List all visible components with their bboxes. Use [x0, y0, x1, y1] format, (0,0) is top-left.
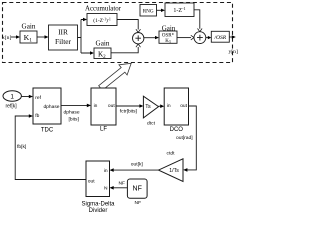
svg-text:fb[k]: fb[k] [17, 144, 27, 150]
svg-text:OSR*: OSR* [162, 34, 175, 39]
svg-text:out[rad]: out[rad] [176, 135, 193, 141]
accumulator (1-Z^-1)^-1 [87, 14, 117, 26]
wire K1 to IIR [37, 36, 46, 38]
wire dtct to DCO [159, 105, 162, 107]
sum node 2 [194, 32, 206, 44]
svg-text:y[n]: y[n] [229, 49, 238, 55]
svg-text:in: in [167, 103, 171, 109]
gain OSR*K3 [159, 31, 177, 43]
svg-text:out: out [88, 178, 95, 184]
constant NF [127, 179, 147, 198]
svg-text:Gain: Gain [96, 39, 110, 47]
IIR filter [49, 25, 78, 50]
dashed subsystem boundary [3, 3, 233, 63]
svg-text:Filter: Filter [55, 37, 72, 46]
wire K2 to sum1 [111, 47, 138, 53]
wire DCO to ctdt [187, 106, 197, 170]
svg-text:out: out [180, 103, 187, 109]
svg-text:x[n]: x[n] [2, 35, 11, 41]
svg-text:ref: ref [35, 95, 41, 101]
svg-text:dtct: dtct [147, 121, 156, 127]
svg-text:IIR: IIR [58, 28, 68, 37]
callout arrow from LF to subsystem [99, 63, 132, 90]
gain K1 [20, 31, 37, 43]
svg-text:in: in [94, 103, 98, 109]
wire divider out to TDC fb [15, 116, 86, 180]
svg-text:[bits]: [bits] [69, 116, 80, 122]
DCO block [164, 88, 188, 125]
gain K2 [94, 48, 111, 59]
wire NF to divider N [113, 187, 127, 189]
sigma-delta divider block [86, 161, 110, 197]
RNG source [140, 5, 157, 17]
source ref [3, 91, 21, 101]
wire sum1 to gain K3 [144, 37, 156, 39]
differentiator 1-Z^-1 [165, 3, 194, 17]
wire /OSR to y[n] [229, 36, 232, 38]
wire ctdt to divider in [113, 169, 159, 171]
svg-text:NF: NF [119, 180, 126, 186]
wire IIR branch [78, 20, 92, 54]
svg-text:Divider: Divider [89, 208, 108, 212]
svg-text:DCO: DCO [170, 127, 184, 133]
svg-text:K3: K3 [165, 39, 171, 44]
svg-text:TDC: TDC [41, 127, 54, 133]
gain 1/Ts (ctdt) [159, 159, 184, 182]
LF block [91, 88, 116, 125]
svg-text:in: in [104, 168, 108, 174]
svg-text:out: out [108, 103, 115, 109]
svg-text:fb: fb [35, 113, 39, 119]
svg-text:Ts: Ts [145, 104, 151, 110]
svg-text:dphase: dphase [64, 109, 80, 115]
svg-text:Sigma-Delta: Sigma-Delta [81, 202, 115, 208]
sum node 1 [133, 33, 144, 44]
svg-text:/OSR: /OSR [213, 35, 226, 41]
wire ref to TDC [21, 96, 29, 98]
wire sum2 to /OSR [206, 37, 209, 39]
wire 1-Z^-1 to sum2 [194, 10, 200, 29]
svg-text:1: 1 [10, 94, 14, 101]
wire accumulator to sum1 [117, 20, 138, 30]
svg-text:ref[k]: ref[k] [6, 103, 18, 109]
wire x[n] to K1 [11, 36, 17, 38]
svg-text:LF: LF [100, 126, 107, 132]
svg-text:NF: NF [135, 200, 142, 206]
svg-text:dphase: dphase [43, 104, 59, 110]
svg-text:fctr[bits]: fctr[bits] [120, 108, 138, 114]
svg-text:1/Ts: 1/Ts [169, 168, 179, 174]
svg-text:NF: NF [133, 185, 142, 192]
svg-text:Gain: Gain [22, 23, 36, 31]
gain Ts (dtct) [143, 96, 158, 118]
wire TDC to LF [61, 104, 88, 106]
wire RNG to 1-Z^-1 [157, 9, 163, 11]
wire LF to dtct [116, 105, 140, 107]
decimator /OSR [211, 31, 229, 42]
svg-text:N: N [104, 186, 108, 192]
TDC block [33, 88, 61, 124]
svg-text:Accumulator: Accumulator [85, 6, 122, 13]
svg-text:RNG: RNG [143, 8, 154, 14]
svg-text:ctdt: ctdt [167, 151, 176, 157]
svg-text:out[k]: out[k] [131, 161, 144, 167]
wire K3 to sum2 [177, 37, 191, 39]
